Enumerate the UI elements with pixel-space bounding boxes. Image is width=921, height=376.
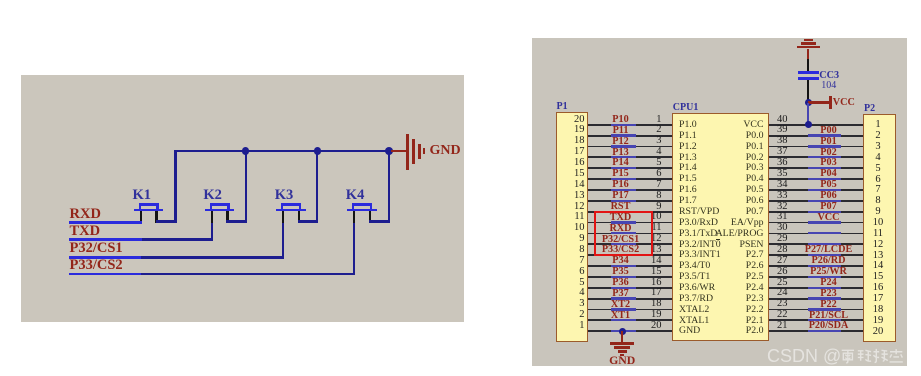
CPU pin number 14 [638,255,662,268]
CPU pin number 15 [638,266,662,279]
capacitor C3 plate 2 [798,77,819,80]
wire P1 row 2 [588,135,673,137]
wire P1 row 15 blue segment [611,276,636,278]
ground symbol bar 1 [406,134,409,170]
ground symbol top bar3 [804,39,813,41]
wire CPU row pin 33 [769,200,863,202]
wire P1 row 17 [588,298,673,300]
CPU pin number 36 [777,157,788,170]
wire P32/CS1 highlighted [69,256,141,259]
CPU pin number 18 [638,298,662,311]
wire P1 row 3 blue segment [611,145,636,147]
CPU1 right pin name row 1 [702,119,764,131]
wire row 33 blue segment [808,200,841,202]
CPU1 left pin name P1.5 [679,173,697,185]
wire row 23 blue segment [808,308,841,310]
wire CPU row pin 30 [769,233,863,235]
wire CPU row pin 39 [769,135,863,137]
junction dot P1 pin1 [619,328,626,335]
P1 pin number 5 [561,277,585,290]
net label P37 [589,288,653,300]
wire P1 row 9 [588,211,673,213]
CPU pin number 25 [777,277,788,290]
P1 pin number 10 [561,222,585,235]
button K4 designator [346,187,365,204]
button K3 actuator right tick [299,203,301,209]
label P32/CS1 [70,240,123,257]
wire P1 row 10 [588,222,673,224]
wire row 22 blue segment [808,319,841,321]
net label P12 [589,136,653,148]
net label row 34 [794,179,864,191]
button K3 actuator bar [281,203,301,206]
wire row 30 blue segment [808,232,841,234]
CPU1 left pin name XTAL1 [679,315,709,327]
CPU1 right pin name row 10 [702,217,764,229]
wire P1 row 19 [588,319,673,321]
connector P1 designator [557,101,568,113]
P2 pin number 8 [866,195,890,208]
CPU pin number 6 [638,168,662,181]
net label RST [589,201,653,213]
button K2 contact bar [205,209,235,212]
wire row 25 blue segment [808,287,841,289]
CPU pin number 30 [777,222,788,235]
button K1 right pin [155,211,157,222]
net label row 21 [794,320,864,332]
wire P1 row 5 [588,167,673,169]
CPU pin number 11 [638,222,662,235]
P2 pin number 20 [866,326,890,339]
CPU1 right pin name row 19 [702,315,764,327]
wire drop to K1 [174,151,176,221]
button K2 right pin [226,211,228,222]
watermark CSDN [767,346,904,366]
ground stem maroon [807,49,809,60]
CPU pin number 23 [777,298,788,311]
wire row 32 blue segment [808,211,841,213]
wire P1 row 13 [588,254,673,256]
label P33/CS2 [70,257,123,274]
P2 pin number 4 [866,152,890,165]
P1 pin number 9 [561,233,585,246]
wire P1 row 4 blue segment [611,156,636,158]
wire P1 row 17 blue segment [611,297,636,299]
CPU pin number 5 [638,157,662,170]
P2 pin number 1 [866,119,890,132]
CPU pin number 40 [777,114,788,127]
wire CPU row pin 28 [769,254,863,256]
button K1 designator [133,187,152,204]
button K3 contact bar [276,209,306,212]
P2 pin number 12 [866,239,890,252]
CPU1 left pin name P3.2/INT0 [679,239,721,251]
button K2 actuator right tick [227,203,229,209]
net label XT1 [589,310,653,322]
net label P10 [589,114,653,126]
net label row 26 [794,266,864,278]
button K1 actuator bar [139,203,159,206]
wire row 37 blue segment [808,156,841,158]
wire CPU row pin 25 [769,287,863,289]
net label row 39 [794,125,864,137]
wire row 36 blue segment [808,167,841,169]
wire P1 row 11 blue segment [611,232,636,234]
CPU1 left pin name P3.7/RD [679,293,713,305]
net label row 27 [794,255,864,267]
P1 pin number 7 [561,255,585,268]
CPU1 right pin name row 3 [702,141,764,153]
wire row 24 blue segment [808,297,841,299]
CPU1 left pin name XTAL2 [679,304,709,316]
wire row 27 blue segment [808,265,841,267]
net label P14 [589,157,653,169]
button K2 actuator left tick [210,203,212,209]
button K1 actuator left tick [139,203,141,209]
op-amp CPU1 body [672,113,770,341]
button K2 actuator bar [210,203,230,206]
CPU1 left pin name RST/VPD [679,206,719,218]
CPU1 left pin name GND [679,325,700,337]
wire CPU row pin 35 [769,178,863,180]
wire P1 row 14 [588,265,673,267]
CPU1 right pin name row 16 [702,282,764,294]
overline mark over INT0 zero [716,239,721,240]
wire row 21 blue segment [808,330,841,332]
wire P1 row 11 [588,233,673,235]
CPU1 left pin name P1.7 [679,195,697,207]
wire row 29 blue segment [808,243,841,245]
CPU1 right pin name row 13 [702,249,764,261]
wire P1 row 6 [588,178,673,180]
wire CPU row pin 24 [769,298,863,300]
wire P32/CS1 to K3 [141,256,284,258]
P2 pin number 19 [866,315,890,328]
net label row 36 [794,157,864,169]
wire CPU row pin 26 [769,276,863,278]
label VCC power [833,97,855,109]
P1 pin number 13 [561,190,585,203]
CPU1 right pin name row 17 [702,293,764,305]
net label TXD [589,212,653,224]
wire VCC tap to pin40 [807,103,809,125]
wire P1 row 20 [588,330,673,332]
net label row 25 [794,277,864,289]
wire CPU row pin 36 [769,167,863,169]
CPU1 right pin name row 9 [702,206,764,218]
CPU pin number 9 [638,201,662,214]
wire GND rail [174,150,390,152]
label GND bottom [600,354,644,368]
CPU pin number 8 [638,190,662,203]
wire P1 row 5 blue segment [611,167,636,169]
CPU pin number 17 [638,287,662,300]
wire CPU row pin 34 [769,189,863,191]
button K4 left pin [353,211,355,222]
highlight box around TXD/RXD/P32/P33 [594,211,653,256]
wire hook K4 to rail drop [369,220,390,222]
CPU1 left pin name P1.3 [679,152,697,164]
wire TXD to K2 [142,238,213,240]
junction dot pin40 [805,121,812,128]
net label row 31 [794,212,864,224]
CPU1 left pin name P1.4 [679,162,697,174]
ground symbol top bar2 [801,42,817,44]
wire CPU row pin 38 [769,146,863,148]
P2 pin number 18 [866,304,890,317]
ground symbol bottom bar3 [618,350,627,352]
button K4 right pin [369,211,371,222]
P1 pin number 20 [561,114,585,127]
CPU1 left pin name P3.0/RxD [679,217,718,229]
capacitor value 104 [821,80,836,92]
junction dot rail-GND [385,147,393,155]
net label P34 [589,255,653,267]
wire P33/CS2 to K4 [141,273,355,275]
capacitor C3 plate 1 [798,71,819,74]
CPU pin number 22 [777,309,788,322]
P1 pin number 17 [561,146,585,159]
wire K2 left pin extension [211,223,213,240]
wire CPU row pin 21 [769,330,863,332]
CPU1 left pin name P1.1 [679,130,697,142]
net label row 37 [794,147,864,159]
wire P1 row 7 [588,189,673,191]
wire P1 row 19 blue segment [611,319,636,321]
CPU pin number 26 [777,266,788,279]
left schematic panel background [21,75,464,322]
P1 pin number 2 [561,309,585,322]
button K2 designator [203,187,222,204]
wire hook K1 to rail drop [156,220,177,222]
net label row 23 [794,299,864,311]
ground stem bottom [621,331,623,342]
wire stub to GND [391,150,407,152]
net label P32/CS1 [589,234,653,246]
CPU1 right pin name row 12 [702,239,764,251]
wire P1 row 14 blue segment [611,265,636,267]
wire P1 row 15 [588,276,673,278]
button K3 right pin [298,211,300,222]
CPU pin number 1 [638,114,662,127]
P2 pin number 11 [866,228,890,241]
wire P1 row 18 [588,309,673,311]
CPU pin number 37 [777,146,788,159]
ground symbol bar 3 [418,144,421,159]
CPU1 left pin name P3.6/WR [679,282,715,294]
wire hook K2 to rail drop [226,220,247,222]
P1 pin number 1 [561,320,585,333]
wire CPU row pin 37 [769,156,863,158]
wire P1 row 9 blue segment [611,211,636,213]
P1 pin number 6 [561,266,585,279]
wire CPU row pin 32 [769,211,863,213]
net label XT2 [589,299,653,311]
ground symbol top bar1 [797,46,821,49]
net label row 35 [794,168,864,180]
button K1 left pin [140,211,142,222]
CPU1 right pin name row 11 [702,228,764,240]
wire row 34 blue segment [808,189,841,191]
P1 pin number 12 [561,201,585,214]
CPU1 right pin name row 20 [702,325,764,337]
net label row 38 [794,136,864,148]
ground symbol bar 4 [423,148,426,154]
button K2 left pin [211,211,213,222]
wire row 28 blue segment [808,254,841,256]
wire K3 left pin extension [282,223,284,258]
wire CPU row pin 23 [769,309,863,311]
P1 pin number 4 [561,287,585,300]
wire P33/CS2 highlighted [69,273,141,276]
CPU1 left pin name P3.1/TxD [679,228,717,240]
P1 pin number 14 [561,179,585,192]
CPU pin number 32 [777,201,788,214]
CPU pin number 13 [638,244,662,257]
P2 pin number 7 [866,184,890,197]
wire CPU row pin 27 [769,265,863,267]
CPU1 right pin name row 8 [702,195,764,207]
P2 pin number 2 [866,130,890,143]
button K1 actuator right tick [156,203,158,209]
CPU pin number 39 [777,124,788,137]
wire P1 row 10 blue segment [611,221,636,223]
label TXD [70,223,101,240]
net label P17 [589,190,653,202]
wire P1 row 2 blue segment [611,134,636,136]
CPU1 right pin name row 6 [702,173,764,185]
CPU pin number 31 [777,211,788,224]
wire row 26 blue segment [808,276,841,278]
connector P2 body [863,114,896,342]
CPU pin number 33 [777,190,788,203]
CPU1 left pin name P1.2 [679,141,697,153]
P2 pin number 9 [866,206,890,219]
wire P1 row 1 [588,124,673,126]
CPU pin number 4 [638,146,662,159]
junction dot rail-K2 [242,147,249,154]
wire drop to K2 [245,151,247,221]
wire hook K3 to rail drop [298,220,319,222]
wire P1 row 12 blue segment [611,243,636,245]
capacitor designator CC3 [819,70,839,82]
ground symbol bottom bar1 [610,342,634,345]
right schematic panel background [532,38,907,366]
net label P15 [589,168,653,180]
CPU pin number 24 [777,287,788,300]
wire row 39 blue segment [808,134,841,136]
wire to VCC symbol [808,101,829,103]
P2 pin number 14 [866,260,890,273]
junction dot VCC tap [805,99,812,106]
button K3 actuator left tick [281,203,283,209]
P2 pin number 17 [866,293,890,306]
CPU1 left pin name P3.4/T0 [679,260,710,272]
wire P1 row 4 [588,156,673,158]
CPU1 left pin name P1.0 [679,119,697,131]
label RXD [70,206,101,223]
button K4 contact bar [347,209,377,212]
wire RXD highlighted [69,221,142,224]
wire row 35 blue segment [808,178,841,180]
wire P1 row 8 blue segment [611,200,636,202]
CPU1 right pin name row 7 [702,184,764,196]
wire P1 row 13 blue segment [611,254,636,256]
junction dot rail-K3 [314,147,321,154]
P2 pin number 16 [866,282,890,295]
net label row 24 [794,288,864,300]
CPU pin number 3 [638,135,662,148]
button K3 left pin [282,211,284,222]
wire P1 row 18 blue segment [611,308,636,310]
P1 pin number 15 [561,168,585,181]
net label row 28 [794,244,864,256]
CPU1 right pin name row 2 [702,130,764,142]
CPU1 right pin name row 5 [702,162,764,174]
wire CPU row pin 29 [769,243,863,245]
wire P1 row 16 [588,287,673,289]
net label P33/CS2 [589,244,653,256]
CPU1 right pin name row 18 [702,304,764,316]
wire K4 left pin extension [353,223,355,274]
P1 pin number 18 [561,135,585,148]
CPU1 left pin name P1.6 [679,184,697,196]
P1 pin number 11 [561,211,585,224]
P2 pin number 15 [866,271,890,284]
CPU pin number 2 [638,124,662,137]
ground symbol bottom bar2 [614,346,630,349]
wire P1 row 20 blue segment [611,330,636,332]
connector P2 designator [864,103,875,115]
wire drop to K4 [388,151,390,221]
label GND net [430,143,461,159]
button K3 designator [275,187,294,204]
P2 pin number 10 [866,217,890,230]
CPU pin number 16 [638,277,662,290]
ground symbol bottom bar4 [620,354,624,356]
CPU pin number 34 [777,179,788,192]
wire CPU row pin 31 [769,222,863,224]
CPU1 right pin name row 14 [702,260,764,272]
net label row 33 [794,190,864,202]
CPU pin number 21 [777,320,788,333]
CPU pin number 27 [777,255,788,268]
CPU1 right pin name row 15 [702,271,764,283]
wire CPU row pin 40 [769,124,863,126]
net label row 22 [794,310,864,322]
CPU pin number 35 [777,168,788,181]
connector P1 body [556,112,588,343]
capacitor C3 top pin [807,59,809,71]
net label P11 [589,125,653,137]
button K4 actuator bar [352,203,372,206]
CPU pin number 7 [638,179,662,192]
wire P1 row 7 blue segment [611,189,636,191]
wire P1 row 12 [588,243,673,245]
CPU pin number 29 [777,233,788,246]
net label P13 [589,147,653,159]
wire P1 row 6 blue segment [611,178,636,180]
net label row 32 [794,201,864,213]
wire P1 row 1 blue segment [611,124,636,126]
wire P1 row 8 [588,200,673,202]
P2 pin number 3 [866,141,890,154]
button K4 actuator right tick [370,203,372,209]
wire row 38 blue segment [808,145,841,147]
button K4 actuator left tick [352,203,354,209]
wire P1 row 16 blue segment [611,287,636,289]
CPU pin number 20 [638,320,662,333]
